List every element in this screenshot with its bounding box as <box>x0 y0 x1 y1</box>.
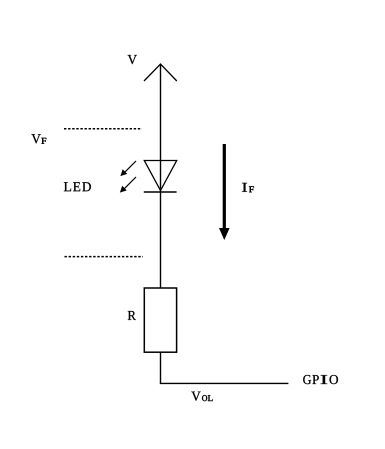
node VF level (dotted reference line) <box>64 128 142 130</box>
label V (supply net) <box>128 55 137 64</box>
node R-top level (dotted reference line) <box>65 256 144 258</box>
LED D1 cathode bar <box>144 191 177 193</box>
label VF <box>32 134 47 143</box>
label R <box>128 311 136 320</box>
wire resistor R to corner <box>160 352 162 383</box>
LED emission arrow 2 <box>121 177 137 192</box>
label LED <box>64 182 91 191</box>
LED emission arrow 1 <box>121 161 136 176</box>
resistor R body <box>144 288 176 352</box>
wire corner to GPIO pin <box>160 382 289 384</box>
label VOL <box>191 392 212 401</box>
power supply arrow (net V) <box>144 64 177 81</box>
current arrow IF <box>219 144 230 240</box>
wire LED cathode to resistor R <box>160 192 162 288</box>
label IF <box>242 183 254 192</box>
wire V supply to LED anode <box>160 64 162 192</box>
label GPIO <box>303 375 338 384</box>
LED D1 triangle (anode) <box>144 161 176 191</box>
